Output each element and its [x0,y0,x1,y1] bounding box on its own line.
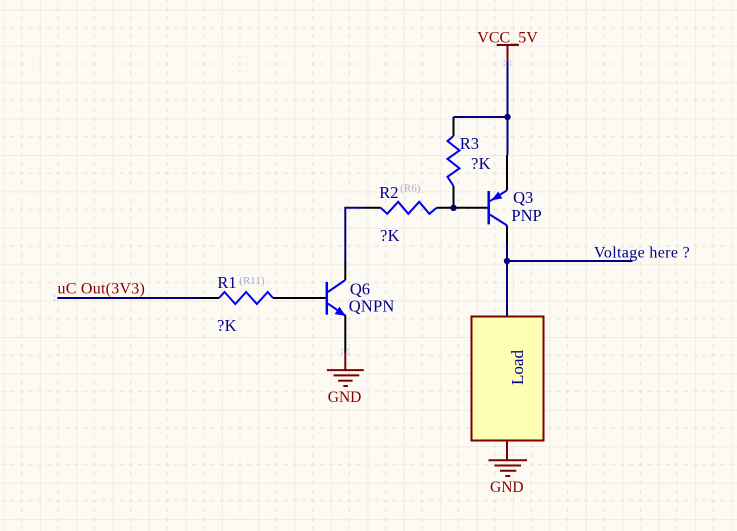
junction output [504,258,510,264]
junction top [504,114,510,120]
wire Q6 collector up [344,261,346,280]
resistor R2 [364,202,454,214]
wire output down to load [506,261,508,317]
svg-text:Q3: Q3 [513,188,533,207]
svg-text:R3: R3 [460,134,479,153]
svg-text:QNPN: QNPN [349,297,395,316]
svg-text:?K: ?K [380,226,400,245]
wire uC Out [57,297,199,299]
wire to Q3 emitter [507,117,509,155]
wire output right [507,260,633,262]
junction mid [450,205,456,211]
wire Q3 collector to junction [506,244,508,261]
svg-text:?K: ?K [217,316,237,335]
ground Q6 stem [344,353,346,371]
pin hotspot mark wire start [54,295,56,301]
svg-text:R1: R1 [217,273,236,292]
resistor R3 [448,117,460,208]
svg-text:R2: R2 [379,183,398,202]
pin hotspot mark VCC [504,60,510,67]
svg-text:GND: GND [490,479,524,496]
ground Q6 [327,370,364,386]
wire VCC stem [507,62,509,117]
svg-text:(R6): (R6) [400,183,421,195]
transistor Q3 [454,155,508,244]
svg-text:PNP: PNP [511,206,541,225]
svg-text:?K: ?K [471,154,491,173]
transistor Q6 [327,280,346,353]
ground load stem [506,441,508,461]
svg-text:(R11): (R11) [239,275,265,287]
ground load [489,460,528,476]
pin hotspot mark Q6 emitter [342,348,348,355]
power port VCC_5V [497,45,519,62]
svg-text:GND: GND [328,389,362,406]
wire top horizontal [454,116,508,118]
svg-text:Voltage here ?: Voltage here ? [594,245,690,262]
load box [472,317,544,441]
svg-text:uC Out(3V3): uC Out(3V3) [58,281,146,298]
svg-text:Load: Load [508,350,527,385]
wire R2 left corner [345,208,363,261]
resistor R1 [199,292,326,304]
svg-text:VCC_5V: VCC_5V [477,29,538,46]
